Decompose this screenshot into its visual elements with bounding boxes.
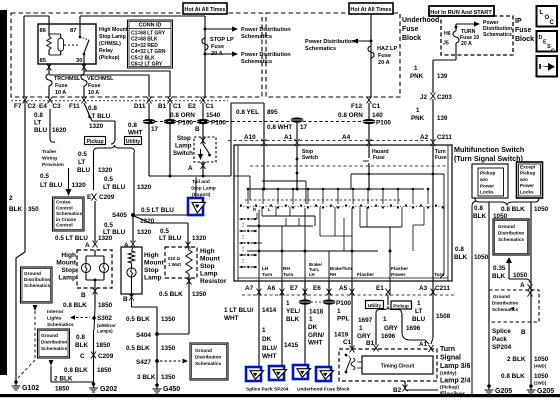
svg-text:1: 1 (286, 300, 290, 307)
svg-text:Schematics: Schematics (483, 32, 512, 38)
svg-text:G202: G202 (100, 386, 117, 393)
svg-text:Distribution: Distribution (195, 355, 221, 360)
svg-text:A: A (520, 282, 525, 289)
svg-text:BLK: BLK (75, 342, 89, 349)
svg-text:Signal: Signal (440, 355, 461, 362)
svg-text:Schematics: Schematics (47, 322, 74, 328)
svg-text:Schematics: Schematics (195, 361, 221, 366)
svg-text:1050: 1050 (513, 272, 528, 279)
svg-text:Flasher: Flasher (357, 272, 374, 278)
svg-text:Splice: Splice (492, 328, 511, 335)
svg-text:20 A: 20 A (461, 41, 472, 47)
svg-text:17: 17 (151, 126, 159, 133)
svg-text:PNK: PNK (411, 115, 425, 122)
svg-text:1418: 1418 (309, 309, 324, 316)
svg-text:0.5: 0.5 (160, 228, 169, 235)
svg-text:Mount: Mount (144, 260, 165, 267)
svg-text:C: C (80, 353, 85, 360)
svg-text:20 A: 20 A (378, 60, 390, 66)
svg-text:R: R (253, 207, 256, 212)
svg-text:P100: P100 (178, 120, 193, 127)
svg-text:30: 30 (76, 58, 82, 64)
svg-text:0.8 WHT: 0.8 WHT (267, 124, 292, 131)
svg-text:C209: C209 (99, 194, 115, 201)
svg-text:(Utility): (Utility) (440, 371, 457, 377)
svg-text:510 Ω: 510 Ω (168, 256, 181, 261)
svg-text:0.5 LT BLU: 0.5 LT BLU (55, 235, 88, 242)
svg-text:Turn: Turn (440, 346, 455, 353)
svg-text:139: 139 (437, 73, 448, 80)
svg-text:LT: LT (34, 120, 41, 127)
svg-text:0.5 BLK: 0.5 BLK (126, 316, 150, 323)
svg-text:in Cruise: in Cruise (56, 217, 76, 222)
svg-text:Utility: Utility (368, 303, 382, 309)
svg-text:B: B (123, 296, 128, 303)
svg-text:LT BLU: LT BLU (159, 235, 182, 242)
svg-text:Resistor: Resistor (200, 278, 227, 285)
svg-text:SP204: SP204 (492, 344, 512, 351)
svg-text:Control: Control (56, 205, 73, 210)
svg-text:Lamp 2/4: Lamp 2/4 (440, 378, 470, 385)
svg-text:0.5 LT BLU: 0.5 LT BLU (141, 207, 174, 214)
svg-text:Ground: Ground (493, 294, 510, 299)
svg-text:Power: Power (391, 272, 406, 278)
svg-text:G205: G205 (495, 388, 512, 395)
svg-text:139: 139 (437, 115, 448, 122)
svg-text:G450: G450 (163, 386, 180, 393)
svg-text:Pack: Pack (492, 336, 507, 343)
svg-text:J5: J5 (443, 41, 449, 47)
svg-text:(Turn Signal Switch): (Turn Signal Switch) (454, 154, 524, 163)
svg-text:Tail and: Tail and (192, 179, 210, 185)
svg-text:L: L (540, 10, 544, 16)
svg-text:1: 1 (416, 107, 420, 114)
svg-text:Schematics: Schematics (241, 34, 272, 40)
svg-text:BLK: BLK (286, 316, 300, 323)
svg-text:87: 87 (70, 28, 76, 34)
svg-text:Fuse: Fuse (211, 44, 224, 50)
svg-text:Wiring: Wiring (42, 156, 57, 162)
svg-text:1540: 1540 (206, 112, 221, 119)
svg-text:0.8 BLK: 0.8 BLK (64, 367, 88, 374)
svg-text:Schematics: Schematics (41, 346, 67, 351)
svg-text:RH: RH (330, 272, 336, 277)
svg-text:C: C (551, 49, 555, 55)
svg-text:A: A (124, 242, 129, 249)
svg-text:Stop: Stop (144, 267, 159, 274)
svg-text:LT BLU: LT BLU (40, 182, 63, 189)
svg-text:1350: 1350 (161, 374, 176, 381)
svg-text:Pickup: Pickup (86, 139, 103, 145)
svg-text:GRY: GRY (357, 333, 371, 340)
svg-text:10 A: 10 A (88, 90, 99, 96)
svg-text:F11: F11 (69, 103, 80, 110)
svg-text:S404: S404 (136, 332, 151, 339)
svg-text:A1: A1 (419, 341, 428, 348)
svg-text:A5: A5 (339, 285, 348, 292)
svg-text:D: D (539, 35, 543, 41)
svg-text:1: 1 (417, 300, 421, 307)
svg-text:0.8: 0.8 (455, 246, 464, 253)
svg-text:Power: Power (520, 183, 534, 188)
svg-text:E6: E6 (313, 285, 321, 292)
svg-text:Power Distribution: Power Distribution (241, 27, 291, 33)
svg-text:VECHMSL: VECHMSL (87, 76, 114, 82)
svg-text:0.8: 0.8 (76, 334, 85, 341)
svg-text:Provision: Provision (42, 162, 64, 168)
svg-text:Power Distribution: Power Distribution (241, 52, 291, 58)
svg-text:A3: A3 (419, 285, 428, 292)
svg-text:Power: Power (480, 183, 494, 188)
svg-text:1320: 1320 (72, 182, 87, 189)
svg-text:L: L (268, 207, 271, 212)
svg-text:C1: C1 (173, 103, 182, 110)
svg-text:GRN/: GRN/ (308, 332, 324, 339)
svg-text:Turn: Turn (283, 272, 293, 278)
svg-text:J2: J2 (420, 94, 427, 101)
svg-text:C2=68 BLK: C2=68 BLK (131, 37, 158, 43)
svg-text:C5=2 BLK: C5=2 BLK (131, 55, 155, 61)
svg-text:LH: LH (309, 272, 315, 277)
svg-text:C211: C211 (435, 285, 450, 292)
svg-text:High: High (200, 248, 215, 255)
svg-text:High: High (61, 252, 76, 259)
svg-text:C3=32 RED: C3=32 RED (131, 43, 158, 49)
svg-text:C1: C1 (372, 103, 381, 110)
svg-text:B2: B2 (393, 387, 402, 394)
svg-text:Underhood: Underhood (402, 17, 439, 24)
svg-text:High Mount: High Mount (99, 27, 128, 33)
svg-text:F7: F7 (14, 103, 22, 110)
svg-text:Fuse: Fuse (88, 83, 101, 89)
svg-text:Stop: Stop (200, 263, 215, 270)
svg-text:2 BLK: 2 BLK (54, 376, 73, 383)
svg-text:1: 1 (414, 65, 418, 72)
svg-text:S302: S302 (97, 315, 112, 322)
svg-text:w/o: w/o (479, 177, 488, 182)
svg-text:A4: A4 (342, 134, 351, 141)
svg-text:Fuse: Fuse (55, 83, 68, 89)
svg-text:HAZ LP: HAZ LP (377, 46, 397, 52)
svg-text:Utility: Utility (126, 139, 141, 145)
svg-text:LT: LT (78, 159, 85, 166)
svg-text:Ground: Ground (498, 224, 515, 229)
svg-text:1350: 1350 (161, 316, 176, 323)
svg-text:2 BLK: 2 BLK (507, 356, 526, 363)
svg-text:Stop Lamp: Stop Lamp (191, 186, 216, 192)
svg-text:Fuse: Fuse (515, 27, 531, 34)
svg-text:1415: 1415 (284, 342, 299, 349)
svg-text:Switch: Switch (173, 150, 193, 157)
svg-text:Stop: Stop (177, 135, 191, 142)
svg-text:Schematics: Schematics (24, 283, 50, 288)
svg-text:Control: Control (56, 223, 73, 228)
svg-text:BLK: BLK (492, 273, 506, 280)
svg-text:S405: S405 (112, 212, 127, 219)
svg-text:0.8: 0.8 (128, 122, 137, 129)
svg-text:Lamp: Lamp (175, 143, 192, 150)
svg-text:2: 2 (9, 195, 13, 202)
svg-text:Pickup: Pickup (393, 304, 409, 310)
svg-text:w/o: w/o (519, 177, 528, 182)
svg-text:Locks: Locks (520, 189, 534, 194)
svg-text:A: A (85, 242, 90, 249)
svg-text:WHT: WHT (262, 353, 277, 360)
svg-text:1350: 1350 (192, 291, 207, 298)
svg-text:G102: G102 (22, 385, 39, 392)
svg-text:Ground: Ground (41, 333, 58, 338)
svg-text:Ground: Ground (24, 271, 41, 276)
svg-text:F12: F12 (351, 103, 362, 110)
svg-text:Block: Block (515, 36, 534, 43)
svg-text:A6: A6 (267, 285, 276, 292)
svg-text:High: High (144, 252, 159, 259)
svg-text:TRCHMSL: TRCHMSL (54, 76, 81, 82)
svg-text:Trailer: Trailer (42, 149, 57, 155)
svg-text:0.5 BLK: 0.5 BLK (126, 345, 150, 352)
svg-text:(2WD): (2WD) (534, 381, 547, 386)
svg-text:Pickup: Pickup (480, 171, 496, 176)
svg-text:(CHMSL): (CHMSL) (99, 41, 121, 47)
svg-text:(Export): (Export) (192, 192, 211, 198)
svg-text:BLU: BLU (412, 316, 426, 323)
svg-text:1508: 1508 (436, 313, 451, 320)
svg-text:1320: 1320 (98, 167, 113, 174)
svg-text:Locks: Locks (480, 190, 494, 195)
svg-text:0.5: 0.5 (104, 176, 113, 183)
svg-text:B1: B1 (158, 103, 167, 110)
svg-text:D11: D11 (134, 103, 146, 110)
svg-text:Stop Lamp: Stop Lamp (99, 34, 126, 40)
svg-text:BLK: BLK (9, 206, 23, 213)
svg-text:1620: 1620 (52, 127, 67, 134)
svg-text:1850: 1850 (55, 386, 70, 393)
svg-text:C211: C211 (437, 134, 452, 141)
svg-text:B: B (81, 292, 86, 299)
svg-text:1320: 1320 (98, 235, 113, 242)
svg-text:Fuse: Fuse (435, 155, 447, 161)
svg-text:140: 140 (372, 112, 383, 119)
svg-text:Ground: Ground (195, 348, 212, 353)
svg-text:Mount: Mount (56, 260, 77, 267)
svg-text:1050: 1050 (534, 206, 549, 213)
svg-text:E1: E1 (376, 285, 384, 292)
svg-text:1: 1 (383, 316, 387, 323)
svg-text:Block: Block (402, 35, 421, 42)
svg-text:1850: 1850 (96, 342, 111, 349)
svg-text:DK: DK (308, 324, 318, 331)
svg-text:Splice Pack SP204: Splice Pack SP204 (246, 387, 289, 393)
svg-text:1: 1 (262, 327, 266, 334)
svg-text:1350: 1350 (161, 345, 176, 352)
svg-text:0.8 ORN: 0.8 ORN (170, 112, 195, 119)
svg-text:C209: C209 (98, 353, 114, 360)
svg-text:WHT: WHT (308, 340, 323, 347)
svg-text:0.8 BLK: 0.8 BLK (501, 206, 525, 213)
svg-text:C203: C203 (437, 94, 452, 101)
svg-text:Fuse: Fuse (402, 26, 418, 33)
svg-text:10 A: 10 A (55, 90, 66, 96)
svg-text:Fuse: Fuse (378, 53, 391, 59)
svg-text:Schematics: Schematics (305, 46, 336, 52)
svg-text:B1: B1 (366, 340, 375, 347)
svg-text:895: 895 (267, 109, 278, 116)
svg-text:1696: 1696 (381, 333, 396, 340)
svg-text:Timing Circuit: Timing Circuit (381, 364, 415, 370)
svg-text:PPL: PPL (337, 316, 350, 323)
svg-text:0.5: 0.5 (78, 151, 87, 158)
svg-text:1850: 1850 (98, 302, 113, 309)
svg-text:0.5: 0.5 (104, 222, 113, 229)
svg-text:BLU: BLU (77, 167, 91, 174)
svg-text:1050: 1050 (534, 356, 549, 363)
svg-text:S427: S427 (136, 359, 151, 366)
svg-text:0.8: 0.8 (88, 105, 97, 112)
svg-text:1050: 1050 (534, 373, 549, 380)
svg-text:C3: C3 (53, 103, 62, 110)
svg-text:(Pickup): (Pickup) (440, 385, 459, 391)
svg-text:C2: C2 (28, 103, 37, 110)
svg-text:0.8: 0.8 (34, 112, 43, 119)
svg-text:DK: DK (262, 336, 272, 343)
svg-text:Underhood Fuse Block: Underhood Fuse Block (297, 387, 350, 393)
svg-text:0.8 YEL: 0.8 YEL (236, 109, 259, 116)
svg-text:3 BLK: 3 BLK (137, 374, 156, 381)
svg-text:Distribution: Distribution (41, 340, 67, 345)
svg-text:Flasher: Flasher (440, 392, 465, 399)
svg-text:C1=68 LT GRY: C1=68 LT GRY (131, 31, 166, 37)
svg-text:C4=32 LT GRN: C4=32 LT GRN (131, 49, 166, 55)
svg-text:(4WD): (4WD) (534, 364, 547, 369)
svg-text:Schematics: Schematics (56, 211, 82, 216)
svg-text:0.35: 0.35 (493, 265, 506, 272)
svg-text:C1: C1 (343, 339, 352, 346)
svg-text:Flasher: Flasher (391, 266, 408, 272)
svg-text:1414: 1414 (262, 307, 277, 314)
svg-text:Lights: Lights (47, 316, 62, 322)
svg-text:Hot At All Times: Hot At All Times (184, 7, 225, 13)
svg-text:Switch: Switch (302, 155, 318, 161)
svg-text:WHT: WHT (128, 130, 143, 137)
svg-text:Mount: Mount (200, 256, 221, 263)
svg-text:P100: P100 (211, 120, 226, 127)
svg-text:1: 1 (337, 308, 341, 315)
svg-text:0.8 BLK: 0.8 BLK (501, 373, 525, 380)
svg-text:1 Watt: 1 Watt (168, 262, 182, 267)
svg-text:1419: 1419 (334, 332, 349, 339)
svg-text:GRY: GRY (384, 325, 398, 332)
svg-text:0.8 BLK: 0.8 BLK (63, 302, 87, 309)
svg-text:Turn: Turn (262, 272, 272, 278)
svg-text:PNK: PNK (410, 73, 424, 80)
svg-text:Hot At All Times: Hot At All Times (350, 7, 391, 13)
svg-text:350: 350 (28, 206, 39, 213)
svg-text:0.5: 0.5 (40, 173, 49, 180)
svg-text:LT: LT (415, 308, 422, 315)
svg-text:C6=2 LT GRY: C6=2 LT GRY (131, 62, 163, 68)
svg-text:H6: H6 (444, 31, 451, 37)
svg-text:Schematics: Schematics (498, 237, 524, 242)
svg-text:Schematics: Schematics (492, 307, 518, 312)
svg-text:Cruise: Cruise (56, 200, 71, 205)
svg-text:1320: 1320 (137, 184, 152, 191)
svg-text:1697: 1697 (358, 317, 373, 324)
svg-text:C1: C1 (206, 103, 215, 110)
svg-text:E2: E2 (188, 103, 196, 110)
svg-text:1: 1 (359, 325, 363, 332)
svg-text:WHT: WHT (224, 315, 239, 322)
svg-text:1320: 1320 (89, 123, 104, 130)
svg-text:Brake/Turn,: Brake/Turn, (330, 266, 353, 271)
svg-text:Schematics: Schematics (241, 59, 272, 65)
svg-text:CONN ID: CONN ID (139, 23, 162, 29)
svg-text:Lamp: Lamp (200, 271, 218, 278)
svg-text:P100: P100 (336, 300, 351, 307)
svg-text:E: E (87, 194, 92, 201)
svg-text:1050: 1050 (474, 254, 489, 261)
svg-text:1320: 1320 (192, 235, 207, 242)
svg-text:A: A (188, 165, 193, 172)
svg-text:1850: 1850 (97, 367, 112, 374)
svg-text:Power Distribution: Power Distribution (305, 39, 355, 45)
svg-text:A7: A7 (245, 285, 254, 292)
svg-text:Lamps): Lamps) (97, 329, 113, 334)
svg-text:Except: Except (520, 165, 536, 170)
svg-text:BLU: BLU (34, 127, 48, 134)
svg-text:Pickup: Pickup (520, 171, 536, 176)
svg-text:E7: E7 (290, 285, 298, 292)
svg-text:Distribution: Distribution (492, 301, 518, 306)
svg-text:A2: A2 (420, 134, 429, 141)
svg-text:Hot In RUN And START: Hot In RUN And START (430, 10, 492, 16)
svg-text:Distribution: Distribution (24, 277, 50, 282)
svg-text:85: 85 (40, 58, 47, 64)
svg-text:1320: 1320 (137, 229, 152, 236)
svg-text:B: B (521, 329, 526, 336)
svg-text:Multifunction Switch: Multifunction Switch (454, 145, 524, 154)
svg-text:17: 17 (300, 124, 308, 131)
svg-text:LT BLU: LT BLU (103, 184, 126, 191)
svg-text:(w/Mirror: (w/Mirror (97, 323, 116, 328)
svg-text:0.5 BLK: 0.5 BLK (159, 291, 183, 298)
svg-text:Lamp: Lamp (144, 275, 162, 282)
svg-text:BLU/: BLU/ (262, 345, 277, 352)
svg-text:LT BLU: LT BLU (88, 113, 111, 120)
svg-text:Fuse: Fuse (373, 155, 385, 161)
svg-text:Relay: Relay (99, 48, 113, 54)
svg-text:A10: A10 (244, 134, 256, 141)
svg-text:Stop: Stop (61, 267, 76, 274)
svg-text:Lamp 3/6: Lamp 3/6 (440, 363, 470, 370)
svg-text:STOP LP: STOP LP (210, 37, 234, 43)
svg-text:Lamp: Lamp (58, 275, 76, 282)
svg-text:BLK: BLK (454, 254, 468, 261)
svg-text:IP: IP (515, 18, 522, 25)
svg-text:G205: G205 (537, 388, 554, 395)
svg-text:C: C (550, 20, 555, 26)
svg-text:A1: A1 (284, 134, 293, 141)
svg-text:0.8 ORN: 0.8 ORN (338, 112, 363, 119)
svg-text:Turn: Turn (434, 272, 444, 278)
svg-text:BLK: BLK (473, 213, 487, 220)
svg-text:0.8: 0.8 (474, 205, 483, 212)
svg-text:1696: 1696 (406, 325, 421, 332)
svg-text:Interior: Interior (47, 309, 64, 315)
svg-text:RH: RH (283, 266, 290, 272)
svg-text:LH: LH (262, 266, 269, 272)
svg-text:YEL/: YEL/ (286, 308, 300, 315)
svg-text:1 LT BLU/: 1 LT BLU/ (224, 307, 254, 314)
